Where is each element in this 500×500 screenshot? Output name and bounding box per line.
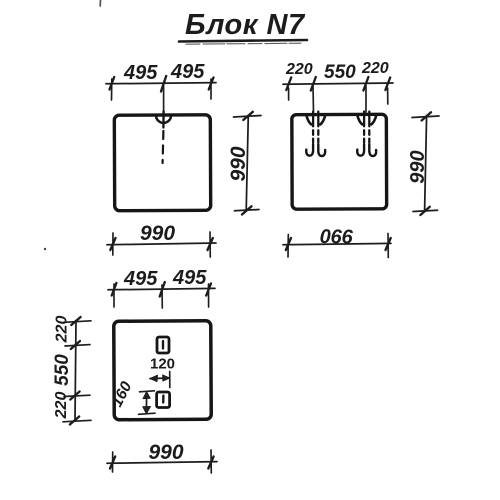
svg-text:120: 120: [150, 356, 175, 373]
front notch arc: [156, 117, 171, 123]
svg-text:220: 220: [285, 61, 313, 78]
svg-text:220: 220: [54, 316, 71, 344]
front view outline: [114, 115, 210, 211]
svg-text:990: 990: [407, 150, 429, 183]
plan view outline: [114, 321, 212, 420]
plan loop rect upper: [157, 337, 169, 353]
front dashed centerline: [162, 131, 165, 163]
svg-text:990: 990: [140, 222, 175, 245]
title Блок N7: [185, 9, 306, 41]
front right dimension 990: [234, 112, 262, 215]
front bottom dimension 990: [107, 232, 216, 257]
front top dimension line 495+495: [106, 76, 216, 110]
plan bottom dimension 990: [107, 450, 217, 473]
side bottom dimension 990 upside down: [283, 234, 391, 258]
side view outline: [292, 114, 387, 209]
dimension 120: [150, 372, 170, 388]
title underline: [179, 40, 307, 44]
front notch wire line: [162, 111, 165, 128]
stray mark top edge: [99, 0, 101, 6]
plan top dimension 495+495: [108, 282, 215, 308]
dimension 160: [139, 391, 156, 415]
svg-text:495: 495: [123, 268, 158, 290]
svg-text:220: 220: [361, 60, 389, 77]
svg-text:220: 220: [53, 392, 70, 420]
svg-text:Блок N7: Блок N7: [185, 9, 306, 41]
stray speck: [44, 248, 46, 250]
svg-text:990: 990: [149, 441, 184, 464]
hook assembly right: [357, 112, 376, 157]
svg-text:990: 990: [227, 146, 250, 181]
plan loop rect lower: [157, 392, 170, 408]
side top dimension 220+550+220: [283, 77, 393, 112]
svg-text:550: 550: [52, 354, 73, 386]
svg-text:495: 495: [170, 61, 205, 83]
svg-text:495: 495: [123, 62, 158, 84]
plan left dimension 220+550+220: [63, 317, 91, 425]
side right dimension 990: [412, 112, 439, 215]
svg-text:495: 495: [172, 267, 207, 289]
svg-text:990: 990: [320, 224, 354, 247]
svg-text:550: 550: [324, 62, 356, 83]
hook assembly left: [306, 112, 325, 157]
